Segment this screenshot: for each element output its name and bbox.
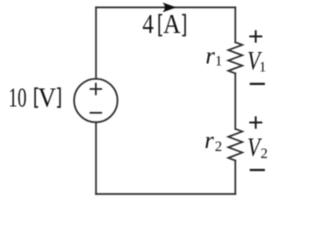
svg-text:r: r	[206, 44, 216, 70]
svg-text:2: 2	[215, 139, 222, 155]
svg-text:10: 10	[8, 83, 26, 113]
svg-text:V: V	[38, 83, 56, 113]
svg-text:A: A	[163, 9, 181, 39]
svg-text:2: 2	[261, 146, 268, 162]
svg-text:r: r	[205, 128, 215, 154]
svg-text:1: 1	[215, 54, 222, 70]
svg-text:4: 4	[142, 9, 154, 39]
svg-text:1: 1	[259, 59, 266, 75]
